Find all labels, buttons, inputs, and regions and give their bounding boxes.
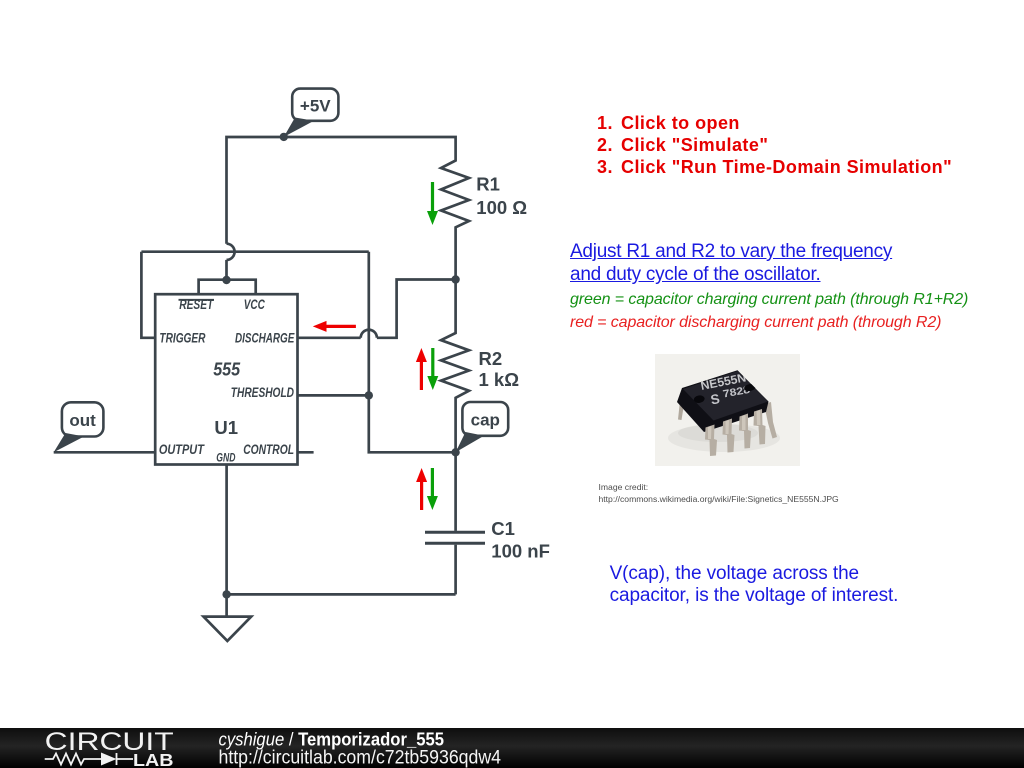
svg-text:100 Ω: 100 Ω: [476, 197, 527, 218]
svg-text:R2: R2: [479, 348, 503, 369]
svg-text:THRESHOLD: THRESHOLD: [231, 385, 294, 400]
svg-text:+5V: +5V: [300, 96, 331, 115]
svg-text:VCC: VCC: [244, 297, 265, 312]
svg-text:http://circuitlab.com/c72tb593: http://circuitlab.com/c72tb5936qdw4: [219, 748, 502, 768]
svg-text:GND: GND: [216, 453, 235, 465]
svg-text:C1: C1: [491, 518, 515, 539]
svg-text:cyshigue / Temporizador_555: cyshigue / Temporizador_555: [219, 729, 445, 750]
svg-text:555: 555: [213, 360, 241, 380]
svg-text:100 nF: 100 nF: [491, 540, 550, 561]
svg-text:LAB: LAB: [133, 750, 174, 768]
svg-text:CONTROL: CONTROL: [243, 442, 294, 457]
svg-text:OUTPUT: OUTPUT: [159, 442, 205, 457]
svg-text:1 kΩ: 1 kΩ: [479, 369, 520, 390]
svg-text:TRIGGER: TRIGGER: [159, 331, 205, 346]
svg-text:R1: R1: [476, 174, 500, 195]
svg-text:out: out: [69, 411, 96, 430]
svg-text:U1: U1: [214, 417, 238, 438]
svg-text:cap: cap: [471, 410, 500, 429]
svg-text:DISCHARGE: DISCHARGE: [235, 331, 295, 346]
